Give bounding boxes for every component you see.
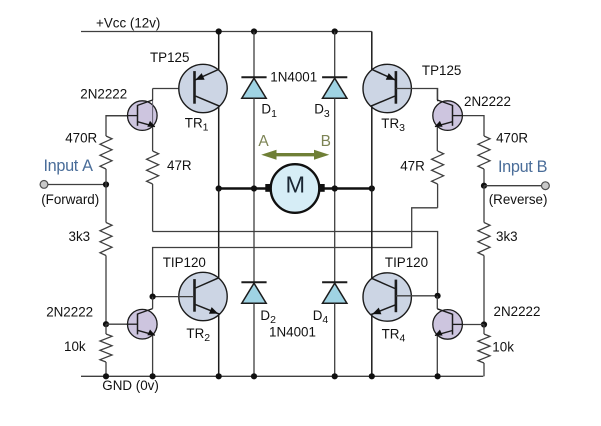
node input A junction bbox=[103, 181, 109, 187]
transistor TR3 bar bbox=[395, 71, 398, 104]
svg-text:47R: 47R bbox=[400, 159, 425, 174]
svg-text:(Forward): (Forward) bbox=[41, 192, 99, 207]
motor M1 body bbox=[271, 164, 320, 213]
svg-text:(Reverse): (Reverse) bbox=[489, 192, 548, 207]
svg-text:3k3: 3k3 bbox=[69, 229, 91, 244]
svg-text:Input B: Input B bbox=[498, 158, 547, 176]
transistor TR4 emitter arrow bbox=[372, 308, 381, 315]
transistor TR2 TIP120 circle bbox=[179, 272, 227, 320]
svg-text:TP125: TP125 bbox=[422, 63, 461, 78]
svg-text:470R: 470R bbox=[65, 131, 97, 146]
wire D3 top lead bbox=[334, 32, 336, 78]
transistor TR1 TP125 circle bbox=[179, 64, 227, 112]
node motor-D3 junction bbox=[332, 185, 338, 191]
wire 3k3 right bottom lead bbox=[483, 256, 485, 325]
node D2 gnd bbox=[251, 373, 257, 379]
svg-text:M: M bbox=[286, 172, 306, 198]
terminal Input B bbox=[542, 182, 550, 190]
transistor TR2 base wire bbox=[153, 296, 194, 298]
transistor Q4 2N2222 collector-emitter column wire (top) bbox=[436, 296, 438, 309]
wire input A to junction bbox=[48, 184, 106, 186]
svg-text:2N2222: 2N2222 bbox=[464, 94, 511, 109]
transistor Q1 2N2222 emitter bbox=[138, 122, 155, 127]
wire D3 bottom lead bbox=[334, 98, 336, 188]
wire 470R bottom lead bbox=[105, 169, 107, 185]
resistor 470R right bbox=[478, 136, 490, 169]
wire motor right (thick) bbox=[324, 187, 372, 190]
svg-text:Input A: Input A bbox=[44, 157, 94, 175]
node TR1 emitter rail bbox=[216, 28, 222, 34]
wire crossover A-to-TR4 base bbox=[153, 232, 438, 296]
node D1 rail bbox=[251, 28, 257, 34]
node 10k-gnd left bbox=[103, 373, 109, 379]
transistor Q1 2N2222 collector-emitter wire through body bbox=[152, 100, 154, 126]
wire 3k3 bottom lead bbox=[105, 256, 107, 325]
svg-text:2N2222: 2N2222 bbox=[80, 86, 127, 101]
transistor Q2 2N2222 bottom-left base wire bbox=[106, 323, 138, 325]
transistor Q2 2N2222 emitter bbox=[138, 330, 155, 335]
node D3 rail bbox=[332, 28, 338, 34]
transistor Q1 2N2222 collector bbox=[138, 100, 153, 105]
resistor 10k left bbox=[100, 334, 112, 362]
wire 10k top lead bbox=[105, 324, 107, 334]
transistor Q3 2N2222 emitter arrow bbox=[435, 121, 443, 127]
svg-text:3k3: 3k3 bbox=[496, 229, 518, 244]
wire input B to junction bbox=[484, 185, 542, 187]
transistor TR2 bar bbox=[193, 279, 196, 312]
svg-text:TIP120: TIP120 bbox=[385, 255, 428, 270]
transistor Q2 2N2222 bar bbox=[137, 314, 139, 335]
svg-text:TP125: TP125 bbox=[150, 50, 189, 65]
arrow direction A-B bbox=[274, 153, 316, 156]
node motor-TR3 junction bbox=[369, 185, 375, 191]
node motor-D1 junction bbox=[251, 185, 257, 191]
terminal Input A bbox=[40, 181, 48, 189]
transistor TR4 emitter bbox=[372, 305, 395, 376]
transistor TR3 base wire bbox=[396, 89, 438, 102]
transistor TR1 emitter bbox=[195, 32, 219, 80]
wire 3k3 top lead bbox=[105, 185, 107, 223]
transistor Q2 2N2222 base wire stub bbox=[127, 323, 138, 325]
transistor TR3 emitter arrow (PNP) bbox=[386, 73, 395, 80]
node TR2 base junction bbox=[150, 294, 156, 300]
transistor Q2 2N2222 body circle bbox=[128, 309, 158, 339]
transistor Q4 2N2222 body circle bbox=[433, 310, 463, 340]
transistor Q3 2N2222 body circle bbox=[433, 101, 463, 131]
transistor TR1 emitter arrow (PNP) bbox=[195, 73, 204, 80]
svg-text:10k: 10k bbox=[64, 339, 86, 354]
transistor Q3 2N2222 collector-emitter column wire (top) bbox=[436, 89, 438, 101]
resistor 3k3 right bbox=[478, 223, 490, 256]
wire 47R left bottom bbox=[152, 184, 154, 232]
svg-text:A: A bbox=[258, 133, 269, 150]
resistor 47R left bbox=[147, 151, 159, 184]
transistor Q1 2N2222 top-left base wire bbox=[106, 115, 138, 117]
transistor Q3 2N2222 collector bbox=[437, 100, 452, 105]
transistor Q4 2N2222 base wire stub bbox=[453, 323, 464, 325]
transistor Q2 2N2222 collector bbox=[138, 309, 153, 314]
resistor 47R right bbox=[432, 151, 444, 184]
transistor TR3 emitter bbox=[372, 32, 395, 80]
svg-text:470R: 470R bbox=[496, 130, 528, 145]
wire D1 top lead bbox=[253, 32, 255, 78]
diode D2 bbox=[241, 281, 266, 283]
svg-text:2N2222: 2N2222 bbox=[46, 304, 93, 319]
node TR4 emitter gnd bbox=[369, 373, 375, 379]
transistor Q3 2N2222 top-right base wire bbox=[453, 116, 484, 136]
wire 47R right bottom bbox=[437, 184, 439, 208]
transistor TR4 bar bbox=[395, 280, 398, 313]
transistor TR3 TP125 circle bbox=[363, 64, 411, 112]
wire crossover B-to-TR2 base bbox=[153, 208, 438, 297]
node Q2 emitter gnd bbox=[150, 373, 156, 379]
transistor TR1 bar bbox=[193, 71, 196, 104]
wire D1 bottom lead bbox=[253, 98, 255, 188]
transistor Q4 2N2222 bottom-right base wire bbox=[453, 324, 484, 326]
node Q4 emitter gnd bbox=[435, 373, 441, 379]
svg-text:2N2222: 2N2222 bbox=[494, 304, 541, 319]
transistor Q2 2N2222 emitter arrow bbox=[147, 329, 155, 335]
transistor TR2 emitter bbox=[195, 304, 219, 376]
transistor Q2 2N2222 collector-emitter column wire (top) bbox=[152, 297, 154, 309]
svg-text:1N4001: 1N4001 bbox=[269, 325, 316, 340]
resistor 470R left bbox=[100, 136, 112, 169]
transistor TR3 collector bbox=[372, 96, 395, 188]
transistor Q1 2N2222 emitter arrow bbox=[147, 121, 155, 127]
transistor Q1 2N2222 body circle bbox=[128, 101, 158, 131]
resistor 10k right bbox=[478, 334, 490, 363]
motor terminal right bbox=[319, 184, 325, 192]
wire 10k right top lead bbox=[483, 325, 485, 335]
wire 3k3 right top lead bbox=[483, 186, 485, 223]
diode D4 bbox=[322, 281, 347, 283]
node TR4 base junction bbox=[435, 293, 441, 299]
diode D3 bbox=[322, 76, 347, 78]
transistor Q4 2N2222 collector-emitter column wire (bottom) bbox=[436, 335, 438, 376]
wire 10k right bottom lead bbox=[483, 363, 485, 376]
svg-text:47R: 47R bbox=[167, 158, 192, 173]
transistor Q4 2N2222 emitter bbox=[435, 331, 453, 336]
wire 470R top lead bbox=[106, 116, 128, 136]
transistor Q1 2N2222 collector-emitter column wire (top) bbox=[152, 89, 154, 101]
transistor Q4 2N2222 bar bbox=[452, 314, 454, 335]
transistor TR1 collector bbox=[196, 96, 219, 188]
svg-text:GND (0v): GND (0v) bbox=[102, 378, 159, 393]
transistor Q3 2N2222 base wire stub bbox=[453, 115, 464, 117]
transistor Q3 2N2222 collector-emitter column wire (bottom) bbox=[436, 126, 438, 151]
svg-text:B: B bbox=[321, 133, 331, 150]
wire D4 top lead bbox=[334, 189, 336, 283]
transistor Q4 2N2222 collector bbox=[437, 309, 452, 314]
transistor TR2 emitter arrow bbox=[209, 307, 218, 314]
transistor TR4 collector bbox=[372, 189, 395, 289]
node input B junction bbox=[481, 183, 487, 189]
resistor 3k3 left bbox=[100, 223, 112, 256]
wire 470R right bottom lead bbox=[483, 169, 485, 186]
wire 10k bottom lead bbox=[105, 362, 107, 376]
transistor Q4 2N2222 emitter arrow bbox=[435, 330, 443, 336]
diode D1 bbox=[241, 76, 266, 78]
motor terminal left bbox=[265, 184, 271, 192]
transistor Q1 2N2222 bar bbox=[137, 105, 139, 126]
transistor Q3 2N2222 bar bbox=[452, 105, 454, 126]
transistor Q3 2N2222 emitter bbox=[435, 122, 453, 127]
node 3k3/10k junction right bbox=[481, 321, 487, 327]
transistor Q2 2N2222 collector-emitter column wire (bottom) bbox=[152, 335, 154, 377]
node TR2 emitter gnd bbox=[216, 373, 222, 379]
svg-text:10k: 10k bbox=[492, 340, 514, 355]
node D4 gnd bbox=[332, 373, 338, 379]
wire motor left (thick) bbox=[219, 187, 266, 190]
transistor TR2 collector bbox=[196, 189, 219, 289]
node motor-TR1 junction bbox=[216, 185, 222, 191]
transistor TR4 TIP120 circle bbox=[363, 273, 411, 321]
transistor Q1 2N2222 base wire stub bbox=[127, 115, 138, 117]
wire D4 bottom lead bbox=[334, 303, 336, 376]
wire D2 bottom lead bbox=[253, 303, 255, 376]
transistor Q1 2N2222 collector-emitter column wire (bottom) bbox=[152, 126, 154, 151]
svg-text:+Vcc (12v): +Vcc (12v) bbox=[96, 16, 160, 31]
transistor TR4 base wire bbox=[396, 295, 438, 297]
svg-text:TIP120: TIP120 bbox=[163, 255, 206, 270]
svg-text:1N4001: 1N4001 bbox=[270, 69, 317, 84]
node 3k3/10k junction left bbox=[103, 321, 109, 327]
wire D2 top lead bbox=[253, 189, 255, 283]
wire GND rail bbox=[81, 375, 483, 377]
wire Q1 collector to TR1 base bbox=[153, 88, 194, 90]
wire +Vcc rail bbox=[81, 31, 372, 33]
